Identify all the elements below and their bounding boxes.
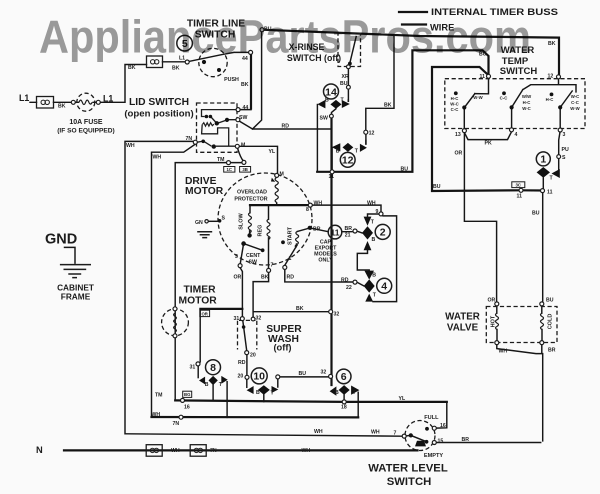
- svg-text:BK: BK: [58, 104, 66, 110]
- svg-text:2: 2: [380, 227, 386, 239]
- svg-text:BK: BK: [172, 66, 180, 72]
- svg-text:OR: OR: [234, 275, 242, 281]
- svg-text:WH: WH: [314, 429, 323, 435]
- svg-text:L1: L1: [103, 94, 113, 104]
- svg-text:11: 11: [517, 194, 523, 200]
- svg-text:BG: BG: [184, 392, 191, 397]
- svg-text:13: 13: [455, 132, 461, 138]
- svg-text:1: 1: [540, 154, 546, 166]
- svg-text:BR: BR: [345, 226, 353, 232]
- svg-text:22: 22: [346, 285, 352, 291]
- svg-text:BU: BU: [546, 298, 554, 304]
- svg-text:OR: OR: [488, 298, 496, 304]
- svg-text:11: 11: [547, 190, 553, 196]
- svg-text:EMPTY: EMPTY: [424, 453, 444, 459]
- svg-text:7N: 7N: [210, 448, 217, 454]
- svg-text:B: B: [372, 237, 376, 243]
- svg-text:WH: WH: [153, 155, 162, 161]
- svg-text:8: 8: [210, 362, 216, 374]
- svg-text:TM: TM: [217, 157, 225, 163]
- svg-text:C-C: C-C: [500, 96, 508, 101]
- svg-text:COLD: COLD: [548, 314, 554, 330]
- svg-text:20: 20: [250, 352, 256, 358]
- svg-text:WH: WH: [126, 143, 135, 149]
- svg-text:15: 15: [438, 439, 444, 445]
- svg-text:VALVE: VALVE: [447, 323, 479, 334]
- svg-text:REG: REG: [258, 225, 264, 237]
- svg-text:LID SWITCH: LID SWITCH: [129, 97, 189, 108]
- svg-text:PU: PU: [562, 147, 569, 153]
- svg-text:WATER: WATER: [445, 312, 480, 323]
- svg-text:GND: GND: [45, 232, 77, 248]
- svg-text:ONLY: ONLY: [318, 258, 333, 264]
- svg-text:B: B: [335, 390, 339, 396]
- svg-text:C-C: C-C: [571, 100, 579, 105]
- svg-text:4: 4: [381, 281, 387, 293]
- svg-text:20: 20: [238, 374, 244, 380]
- svg-text:7N: 7N: [186, 136, 193, 142]
- svg-text:START: START: [288, 226, 294, 245]
- svg-text:TIMER: TIMER: [184, 284, 217, 295]
- svg-text:BK: BK: [384, 103, 392, 109]
- svg-text:11: 11: [480, 74, 486, 80]
- svg-text:C-C: C-C: [451, 107, 459, 112]
- svg-text:32: 32: [321, 370, 327, 376]
- svg-text:YL: YL: [399, 396, 406, 402]
- svg-text:3: 3: [235, 254, 238, 260]
- svg-text:B: B: [372, 272, 376, 278]
- svg-text:1C: 1C: [227, 167, 233, 172]
- svg-text:11: 11: [331, 227, 340, 237]
- svg-text:(off): (off): [273, 342, 291, 352]
- svg-text:31: 31: [234, 316, 240, 322]
- svg-text:3B: 3B: [242, 167, 248, 172]
- svg-text:32: 32: [256, 316, 262, 322]
- svg-text:SWITCH: SWITCH: [387, 476, 432, 488]
- svg-text:RD: RD: [238, 360, 246, 366]
- svg-text:BU: BU: [299, 371, 307, 377]
- svg-text:S: S: [222, 216, 226, 222]
- svg-text:XR: XR: [342, 74, 349, 80]
- svg-text:11: 11: [329, 174, 335, 180]
- svg-text:GN: GN: [195, 220, 203, 226]
- svg-text:18: 18: [341, 405, 347, 411]
- svg-text:12: 12: [548, 74, 554, 80]
- svg-text:H-C: H-C: [451, 96, 459, 101]
- svg-text:7N: 7N: [173, 421, 180, 427]
- svg-text:8: 8: [306, 207, 309, 213]
- svg-text:FULL: FULL: [424, 415, 439, 421]
- svg-text:3C: 3C: [516, 182, 522, 187]
- svg-text:WH: WH: [302, 448, 311, 454]
- svg-text:BR: BR: [313, 227, 321, 233]
- svg-text:W-C: W-C: [571, 94, 580, 99]
- svg-text:RD: RD: [287, 275, 295, 281]
- svg-text:B: B: [336, 148, 340, 154]
- svg-text:10A FUSE: 10A FUSE: [69, 119, 103, 126]
- svg-text:BU: BU: [433, 184, 441, 190]
- svg-text:BR: BR: [548, 348, 556, 354]
- svg-text:PUSH: PUSH: [224, 77, 239, 83]
- svg-text:10: 10: [253, 371, 265, 383]
- svg-text:W-C: W-C: [522, 106, 531, 111]
- svg-text:BK: BK: [261, 275, 269, 281]
- svg-text:SLOW: SLOW: [238, 212, 244, 229]
- svg-text:BK: BK: [241, 82, 249, 88]
- svg-text:12: 12: [369, 131, 375, 137]
- svg-text:PROTECTOR: PROTECTOR: [234, 196, 267, 202]
- svg-text:SWITCH: SWITCH: [500, 66, 538, 77]
- svg-text:WH: WH: [171, 448, 180, 454]
- svg-text:PK: PK: [485, 141, 492, 147]
- svg-text:W-W: W-W: [473, 95, 483, 100]
- svg-text:WH: WH: [367, 201, 376, 207]
- svg-text:SW: SW: [239, 115, 247, 121]
- svg-text:31: 31: [190, 364, 196, 370]
- svg-text:AppliancePartsPros.com: AppliancePartsPros.com: [39, 11, 531, 63]
- svg-text:TM: TM: [155, 392, 163, 398]
- svg-text:W-C: W-C: [450, 102, 459, 107]
- svg-text:OR: OR: [201, 311, 208, 316]
- svg-text:12: 12: [342, 155, 354, 167]
- svg-text:BR: BR: [462, 437, 470, 443]
- svg-text:CENT: CENT: [246, 253, 261, 259]
- svg-text:9: 9: [376, 209, 379, 215]
- svg-text:(open position): (open position): [124, 109, 193, 120]
- svg-text:YL: YL: [269, 149, 276, 155]
- svg-text:MOTOR: MOTOR: [185, 186, 224, 197]
- svg-text:SW: SW: [249, 259, 258, 265]
- svg-text:H-C: H-C: [523, 100, 531, 105]
- svg-text:16: 16: [440, 423, 446, 429]
- svg-text:21: 21: [345, 233, 351, 239]
- svg-text:7: 7: [394, 431, 397, 437]
- svg-text:1: 1: [289, 256, 292, 262]
- svg-text:OR: OR: [455, 151, 463, 157]
- svg-text:FRAME: FRAME: [61, 292, 91, 302]
- svg-text:MOTOR: MOTOR: [179, 296, 218, 307]
- svg-text:OVERLOAD: OVERLOAD: [237, 190, 267, 196]
- svg-text:3: 3: [563, 132, 566, 138]
- svg-text:W-W: W-W: [570, 106, 580, 111]
- svg-text:N: N: [36, 445, 43, 455]
- svg-text:H-C: H-C: [546, 97, 554, 102]
- svg-text:(IF SO EQUIPPED): (IF SO EQUIPPED): [57, 127, 115, 134]
- svg-text:HOT: HOT: [491, 315, 497, 327]
- svg-text:W/W: W/W: [522, 94, 532, 99]
- svg-text:M: M: [280, 171, 284, 177]
- svg-text:WH: WH: [499, 349, 508, 355]
- svg-text:BK: BK: [548, 41, 556, 47]
- svg-text:BK: BK: [296, 306, 304, 312]
- svg-text:WATER LEVEL: WATER LEVEL: [368, 463, 448, 475]
- svg-text:M: M: [241, 142, 245, 148]
- svg-text:WH: WH: [152, 412, 161, 418]
- svg-text:BU: BU: [532, 211, 540, 217]
- svg-text:6: 6: [341, 371, 347, 383]
- svg-text:B: B: [325, 98, 329, 104]
- svg-text:B: B: [205, 382, 209, 388]
- svg-text:WH: WH: [314, 201, 323, 207]
- svg-text:RD: RD: [282, 124, 290, 130]
- svg-text:32: 32: [334, 311, 340, 317]
- svg-text:BU: BU: [401, 166, 409, 172]
- svg-text:SW: SW: [320, 116, 328, 122]
- svg-text:S: S: [562, 155, 566, 161]
- svg-text:L1: L1: [19, 93, 29, 103]
- svg-text:RD: RD: [341, 278, 349, 284]
- svg-text:WH: WH: [371, 430, 380, 436]
- svg-text:44: 44: [243, 105, 249, 111]
- svg-text:16: 16: [184, 405, 190, 411]
- svg-text:7: 7: [271, 263, 274, 269]
- svg-text:BK: BK: [128, 65, 136, 71]
- svg-text:BU: BU: [340, 81, 348, 87]
- svg-text:B: B: [256, 390, 260, 396]
- svg-text:4: 4: [515, 132, 518, 138]
- svg-text:14: 14: [325, 86, 337, 98]
